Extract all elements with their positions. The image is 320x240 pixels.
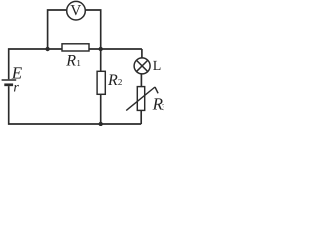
node junction B (voltmeter tap right) — [99, 47, 103, 51]
wire bottom right segment — [75, 123, 141, 125]
wire voltmeter branch left: junction up and over to meter — [48, 10, 67, 49]
battery E r (cell symbol) — [2, 80, 17, 85]
node junction C (bottom) — [99, 122, 103, 126]
lamp L (circle with X) — [134, 58, 150, 74]
rheostat R3 arrow — [126, 87, 158, 111]
svg-text:R: R — [107, 72, 118, 89]
resistor R1 — [62, 44, 89, 51]
svg-text:L: L — [153, 59, 162, 74]
node junction A (voltmeter tap left) — [45, 47, 49, 51]
wire lamp to R3 — [140, 74, 142, 87]
voltmeter U (circle) — [67, 1, 86, 20]
wire voltmeter branch right: meter over and down to junction — [86, 10, 101, 49]
svg-text:3: 3 — [162, 102, 164, 112]
svg-text:2: 2 — [118, 77, 123, 87]
svg-text:1: 1 — [76, 58, 81, 68]
svg-text:r: r — [13, 81, 19, 96]
svg-text:V: V — [70, 3, 81, 19]
wire R2 branch bottom — [100, 94, 102, 124]
svg-text:E: E — [11, 63, 23, 82]
wire lamp branch top — [141, 49, 143, 58]
svg-text:R: R — [65, 53, 76, 70]
rheostat R3 (box) — [137, 87, 144, 111]
wire left branch below battery to bottom-left corner — [9, 86, 75, 124]
wire R3 bottom to bottom wire — [140, 110, 142, 124]
wire left branch: top corner down to battery — [9, 49, 62, 79]
wire R2 branch top — [100, 49, 102, 71]
resistor R2 — [97, 71, 105, 94]
wire top segment R1 right to lamp corner — [89, 48, 142, 50]
